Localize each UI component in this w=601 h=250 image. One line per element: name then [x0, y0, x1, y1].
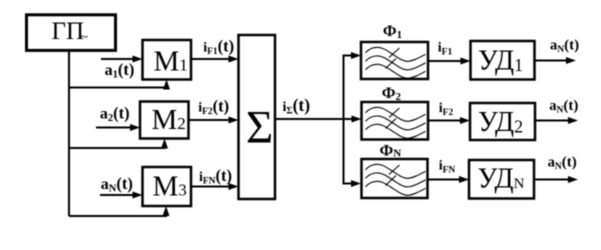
wire into filter F1	[343, 52, 362, 59]
output arrow row3	[534, 176, 578, 183]
filter F1	[361, 42, 428, 79]
input arrow aN(t)	[100, 192, 143, 199]
svg-text:a1(t): a1(t)	[105, 60, 135, 81]
wire branch 1 to M1 bottom	[69, 84, 167, 88]
detector UD2	[470, 103, 535, 140]
modulator M2	[140, 102, 189, 139]
detector UD1	[471, 41, 535, 80]
svg-text:Σ: Σ	[246, 102, 273, 154]
svg-text:aN(t): aN(t)	[549, 98, 578, 115]
generator block GP	[27, 15, 116, 51]
wire F1 to UD1	[428, 58, 471, 65]
wire into filter FN	[343, 180, 362, 187]
input arrow a2(t)	[96, 124, 140, 131]
wire F2 to UD2	[428, 117, 470, 124]
summator block Sigma	[239, 35, 276, 199]
filter F2	[362, 102, 429, 140]
wire branch 2 to M2 bottom	[69, 144, 165, 148]
svg-text:aN(t): aN(t)	[101, 174, 133, 195]
svg-text:a2(t): a2(t)	[100, 104, 130, 125]
wire M1 output	[191, 56, 239, 63]
svg-text:~: ~	[81, 30, 89, 45]
wire M3 output	[191, 183, 239, 190]
input arrow a1(t)	[101, 56, 143, 63]
svg-text:aN(t): aN(t)	[548, 155, 577, 172]
svg-text:ГП: ГП	[52, 18, 85, 45]
output arrow row1	[535, 57, 577, 64]
wire vertical branch to filters	[343, 56, 345, 184]
wire trunk from GP bottom	[68, 52, 70, 216]
filter FN	[362, 159, 428, 198]
modulator M1	[143, 40, 192, 80]
modulator M3	[143, 167, 192, 206]
svg-text:aN(t): aN(t)	[550, 38, 579, 55]
wire Sigma output	[275, 116, 362, 123]
output arrow row2	[535, 117, 578, 124]
wire FN to UDN	[428, 176, 470, 183]
wire branch 3 to M3 bottom	[69, 212, 166, 216]
wire M2 output	[189, 117, 239, 124]
detector UDN	[469, 160, 534, 199]
